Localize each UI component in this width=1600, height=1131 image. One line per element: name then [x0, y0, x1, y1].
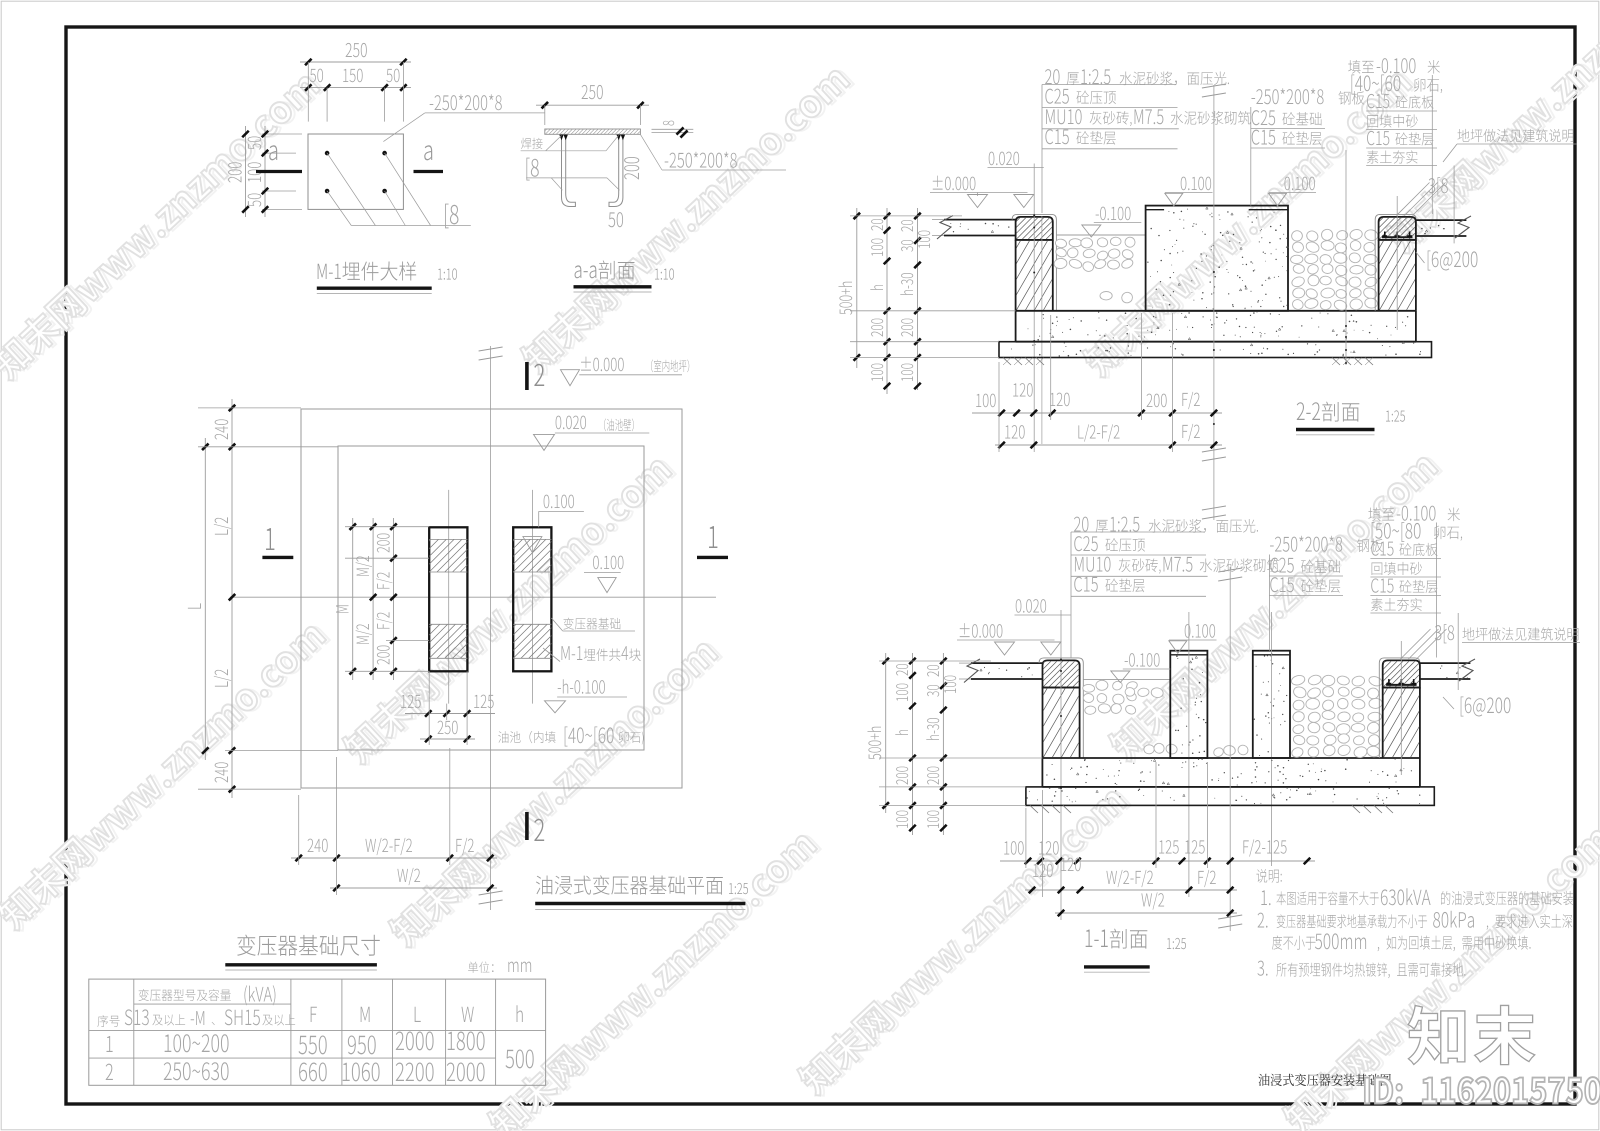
1-1 base slab [1026, 787, 1434, 806]
1-1 ground hatch marks below base [1030, 805, 1038, 813]
plan 0.100 label lower [593, 556, 623, 570]
plan dims 125 125 250 below rails [405, 713, 495, 715]
2-2 left dim extension lines [850, 215, 962, 217]
1-1 level mark -0.100 [1125, 653, 1160, 667]
1-1 bottom dim row 1 [1000, 860, 1315, 862]
2-2 pedestal top embedded plates M-1 [1146, 209, 1165, 211]
a-a channel label [8 [526, 158, 538, 181]
plan rail centerline 1 [448, 490, 450, 704]
1-1 bottom dim row 2 [1025, 889, 1237, 891]
2-2 text block: steel plate / C25 / C15 [1251, 88, 1323, 104]
1-1 right wall cap with channel bars [1383, 660, 1420, 687]
znzmo logo 知末 [1408, 1005, 1535, 1064]
2-2 left dim stack [856, 208, 858, 368]
2-2 left slab break mark [937, 216, 953, 240]
1-1 level mark 0.020 [1016, 599, 1046, 613]
a-a channel web 2 [609, 134, 623, 206]
plan rail 2 [513, 527, 551, 671]
1-1 slab leader hatch to 3[8 label [1401, 629, 1431, 659]
2-2 left wall body (brick) [1015, 240, 1017, 311]
1-1 main centerline [1229, 567, 1231, 931]
plan dim extension horizontals [198, 407, 301, 409]
plan rail dims stack: 200/M2/F2 columns [352, 518, 354, 680]
2-2 right wall cap with 3 channel bars [1379, 217, 1416, 240]
2-2 left dim stack inner [917, 208, 919, 390]
1-1 left wall axis [1060, 610, 1062, 920]
1-1 right pit pebble fill [1290, 674, 1306, 686]
2-2 leader vertical right-mid [1345, 150, 1347, 365]
1-1 right wall body [1382, 688, 1384, 759]
note 2 line 1 [1258, 913, 1268, 928]
1-1 level mark 0.100 [1185, 624, 1215, 638]
plan horizontal centerline [230, 596, 716, 598]
1-1 title [1086, 930, 1108, 947]
plan rail dim labels rotated [377, 533, 390, 552]
notes heading 说明: [1256, 869, 1278, 883]
2-2 central pedestal (transformer foundation) [1146, 206, 1288, 311]
2-2 slab leader hatch to 3[8 label [1397, 183, 1430, 216]
plan section marker 1 right [709, 526, 717, 548]
2-2 right wall body [1378, 240, 1380, 311]
plan level 0.020 油池壁 [556, 416, 586, 430]
1-1 pit floor line with pebbles [1083, 679, 1170, 681]
2-2 section: left ground slab [944, 219, 1016, 221]
plan inner pit rectangle (oil pool wall) [338, 446, 644, 750]
table row 1 [106, 1036, 112, 1052]
1-1 left wall finish outline [1039, 658, 1083, 758]
plan rail centerline 2 [531, 490, 533, 704]
sheet title 油浸式变压器安装基础图 [1258, 1074, 1390, 1087]
plan main vertical centerline [490, 346, 492, 910]
1-1 right wall finish outline [1379, 658, 1420, 758]
a-a title [575, 265, 597, 278]
M-1 left dims 50/100/50 and 200 [262, 133, 302, 135]
1-1 section: left ground slab [971, 662, 1043, 664]
2-2 level mark 0.020 [989, 152, 1019, 166]
1-1 bottom dim row 3 [1055, 912, 1237, 914]
a-a weld label 焊接 [521, 138, 543, 149]
a-a dim 200 rotated [624, 157, 639, 179]
table header texts [97, 1015, 119, 1027]
2-2 left wall finish outline [1012, 214, 1056, 310]
2-2 bottom dim row 1 [972, 412, 1222, 414]
1-1 footing [1042, 757, 1420, 759]
M-1 plate label -250*200*8 with leader [383, 113, 424, 142]
table grid [89, 979, 546, 1085]
plan label 变压器基础 [563, 618, 620, 630]
note 2 line 2 [1272, 936, 1316, 950]
plan title 油浸式变压器基础平面 1:25 [536, 875, 723, 894]
M-1 dim row 50/150/50 [300, 87, 411, 89]
plan label M-1埋件共4块 [561, 646, 582, 660]
plan section marker 1 left [266, 528, 274, 550]
plan level ±0.000 室内地坪 [581, 357, 624, 372]
note 3 [1257, 961, 1267, 976]
1-1 text block: steel plate / C25 / C15 [1270, 536, 1342, 552]
2-2 level mark -0.100 [1096, 207, 1131, 221]
plan bottom extension lines [298, 795, 300, 865]
a-a weld marks [559, 135, 563, 141]
2-2 pit floor line left with pebbles [1056, 234, 1145, 236]
a-a channel web 1 [562, 134, 576, 206]
plan bottom dim row 1: 240 W/2-F/2 F/2 [291, 857, 497, 859]
2-2 base slab (C15 cushion) [999, 342, 1432, 358]
M-1 embedded plate detail: dim 250 line [300, 61, 411, 63]
2-2 text block: mortar/coping/brick/cushion [1045, 69, 1059, 84]
1-1 left dim stack inner [942, 653, 944, 835]
1-1 left wall cap [1043, 660, 1080, 687]
plan centerline break bottom [479, 891, 503, 895]
1-1 bottom dim extension verticals [1025, 808, 1027, 868]
M-1 extension lines [307, 62, 309, 122]
plan centerline break top [479, 347, 503, 351]
M-1 anchor dots (4 bolts) [325, 151, 330, 156]
1-1 right wall axis [1400, 641, 1402, 775]
2-2 footing (C25 base) [1016, 310, 1416, 312]
2-2 label [6@200 [1416, 252, 1425, 263]
2-2 level mark ±0.000 [933, 176, 976, 191]
table unit label 单位:mm [468, 962, 493, 973]
2-2 label 地坪做法见建筑说明 [1458, 129, 1574, 142]
2-2 left wall axis [1033, 164, 1035, 453]
2-2 right pit pebble fill [1291, 230, 1304, 242]
2-2 text block: fill/pebbles/bottom/sand [1348, 60, 1374, 74]
plan 0.100 label top [544, 495, 574, 509]
znzmo ID number [1365, 1077, 1600, 1104]
plan rail 1 (transformer foundation beam) [429, 527, 467, 671]
1-1 text block: fill/pebbles/bottom/sand [1368, 507, 1394, 521]
plan rail dim extension lines [345, 526, 429, 528]
note 1 [1261, 890, 1270, 905]
2-2 ground hatch marks below base [1003, 358, 1011, 366]
M-1 leader lines from bolts to [8 label [327, 153, 375, 225]
2-2 main centerline [1213, 85, 1215, 520]
a-a plate thickness dim 8 [652, 128, 694, 130]
1-1 left wall body [1042, 688, 1044, 759]
a-a right label -250*200*8 [640, 134, 662, 170]
plan left dim chain 240/L2/L2/240 [231, 399, 233, 798]
1-1 left dim extension lines [879, 660, 991, 662]
plan label 油池内填卵石 [498, 731, 555, 743]
a-a dim 250 [536, 104, 649, 106]
1-1 level mark ±0.000 [960, 623, 1003, 638]
2-2 title [1297, 402, 1320, 420]
1-1 pedestal axes [1188, 612, 1190, 897]
1-1 pedestal 2 [1253, 651, 1290, 758]
plan left dim chain L [204, 438, 206, 760]
plan section marker 2 top [525, 362, 529, 390]
2-2 bottom dim row 2 [995, 444, 1222, 446]
2-2 level mark 0.100 left [1181, 177, 1211, 191]
table row 2 [106, 1064, 113, 1080]
2-2 right wall finish outline [1375, 214, 1416, 310]
a-a dim 50 [608, 212, 623, 227]
1-1 right ground slab [1420, 662, 1471, 664]
table title 变压器基础尺寸 [237, 935, 380, 956]
M-1 title 埋件大样 1:10 [318, 264, 341, 279]
plan label -h-0.100 [558, 679, 605, 694]
watermark tiled text 知末网www.znzmo.com [0, 65, 326, 385]
2-2 level mark 0.100 right [1285, 177, 1315, 191]
1-1 label 3[8地坪做法见建筑说明 [1435, 624, 1454, 643]
1-1 label [6@200 [1443, 697, 1454, 709]
plan bottom dim row 2: W/2 [330, 887, 497, 889]
1-1 left dim stack [885, 653, 887, 813]
2-2 right ground slab [1416, 219, 1467, 221]
2-2 bottom dim extension verticals [998, 362, 1000, 452]
M-1 plate outline [308, 134, 403, 209]
1-1 left slab break mark [964, 659, 980, 683]
1-1 text block: mortar/coping/brick/cushion [1074, 517, 1088, 532]
M-1 section marks a-a [269, 145, 277, 160]
2-2 right wall axis [1396, 196, 1398, 330]
2-2 left wall cap (C25 coping) [1016, 217, 1053, 240]
plan outer pit rectangle [301, 409, 682, 788]
plan section marker 2 bottom [525, 812, 529, 840]
1-1 pedestal 1 [1170, 651, 1207, 758]
